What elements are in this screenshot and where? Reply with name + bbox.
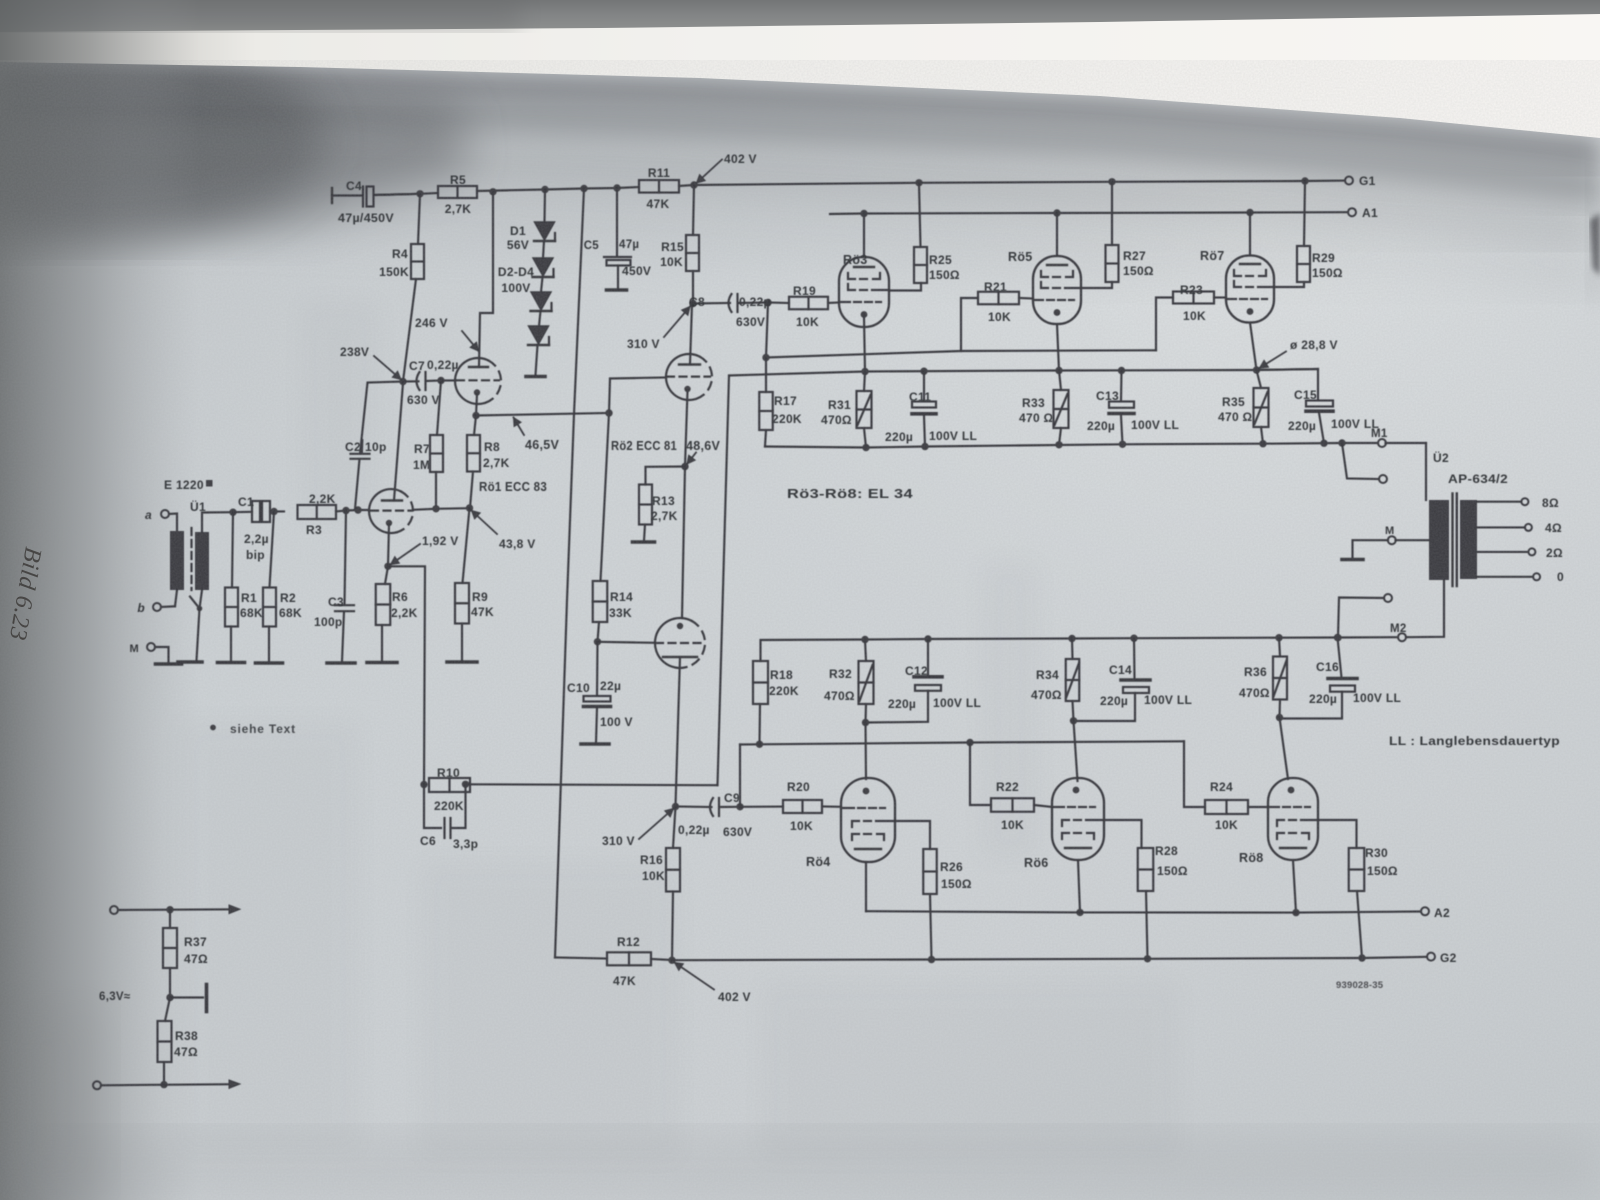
label 1,92 V with arrow <box>391 544 421 565</box>
junction on G1 bus at anode feed <box>489 188 496 195</box>
wire: R10/C6 feedback line to output cathode line <box>466 783 718 786</box>
node 1,92V junction (Roe1a cathode) <box>384 563 391 570</box>
terminal A2 <box>1421 907 1429 915</box>
junction R10 left node <box>420 781 427 788</box>
resistor R15 <box>693 185 694 235</box>
ground bar at heater center tap <box>170 996 203 998</box>
node 310V (top) junction at C8 <box>689 300 696 307</box>
junction at C3 tap <box>342 507 349 514</box>
junction M2 bus at C16 <box>1334 634 1341 641</box>
secondary tap 0 <box>1477 576 1533 578</box>
resistor R37 47R <box>169 910 171 928</box>
resistor R2 68K <box>270 512 275 588</box>
ground under C3 <box>327 661 355 665</box>
faint bleed-through from reverse page <box>180 300 1180 1160</box>
resistor R32 470R <box>865 640 866 662</box>
junction: C7 output node <box>437 377 444 384</box>
resistor R13 2,7K <box>646 467 686 485</box>
node 6,3V center tap <box>166 994 173 1001</box>
diode D1 56V <box>543 190 546 223</box>
wire: G1 supply bus (top rail) <box>374 193 438 195</box>
capacitor C16 220u 100V LL <box>1338 638 1342 678</box>
secondary tap 4 Ohm <box>1477 526 1525 528</box>
wire: A1 anode rail <box>830 212 1348 214</box>
ground under R1 <box>218 661 245 665</box>
resistor R1 68K <box>232 512 233 587</box>
terminal b <box>153 603 161 611</box>
capacitor C2 10p <box>360 382 403 454</box>
capacitor C7 0,22u 630V <box>403 380 419 382</box>
wire: upper cathode line <box>729 369 1318 376</box>
terminal stub above M2 <box>1338 598 1384 638</box>
resistor R35 470R <box>1257 370 1262 388</box>
ground under R2 <box>256 661 283 665</box>
diode D2 <box>543 241 544 258</box>
left gutter vignette <box>0 0 200 1200</box>
wire: lower common grid line <box>739 745 741 807</box>
capacitor C8 0,22u 630V <box>693 302 730 305</box>
junction heater top at R37 <box>166 906 173 913</box>
capacitor C5 47u/450V <box>616 188 618 257</box>
resistor R36 470R <box>1279 638 1280 656</box>
resistor R6 2,2K <box>385 566 388 584</box>
capacitor C9 0,22u 630V <box>676 805 712 808</box>
ground under R6 <box>367 661 397 665</box>
wire: heater top with arrow <box>118 908 236 911</box>
transformer U2 secondary winding <box>1460 500 1477 579</box>
label E 1220 footnote square <box>206 480 213 487</box>
capacitor C15 220u 100V LL <box>1257 369 1319 400</box>
tube Roe3 EL34 <box>863 214 865 258</box>
ground under b/M <box>156 662 182 666</box>
junction: Roe8 cathode node <box>1276 714 1283 721</box>
capacitor C14 220u 100V LL <box>1133 638 1136 679</box>
terminal heater bottom-left <box>93 1081 101 1089</box>
junction M2 bus at R36 <box>1275 634 1282 641</box>
tube Roe6 EL34 <box>1052 778 1104 860</box>
tube Roe1b ECC83 (second triode) <box>455 358 489 404</box>
node 46,5V junction (Roe1b cathode) <box>472 412 479 419</box>
resistor R24 10K (grid stopper Roe8) <box>1184 741 1205 807</box>
label 43,8 V with arrow <box>472 511 498 535</box>
diode D3 <box>541 277 543 292</box>
junction A1 rail at Roe7 anode <box>1246 209 1253 216</box>
wire: Roe2 grid bias column from 46,5V line <box>601 379 611 582</box>
label 402 V top with arrow <box>697 160 723 184</box>
tube Roe2b ECC81 (phase splitter lower) <box>655 618 692 668</box>
tube Roe4 EL34 <box>841 778 895 862</box>
tube Roe7 EL34 <box>1249 213 1251 256</box>
ground under U1 <box>178 660 202 664</box>
capacitor C3 100p <box>345 511 347 605</box>
label 48,6V with arrow <box>687 453 696 465</box>
junction on G1 bus at B+ down-feed <box>580 185 587 192</box>
node 402V (bottom) junction <box>668 957 675 964</box>
junction: C9 output node <box>736 803 743 810</box>
ground under R13 <box>633 540 655 544</box>
label 310 V top with arrow <box>664 307 690 338</box>
transformer U1 left winding <box>170 531 184 590</box>
junction R10 right node <box>462 781 469 788</box>
resistor R18 220K (grid leak lower) <box>758 704 761 744</box>
junction at R2 tap <box>270 508 277 515</box>
wire: upper common grid line <box>766 303 768 358</box>
junction A2 at Roe8 anode <box>1292 909 1299 916</box>
resistor R22 10K (grid stopper Roe6) <box>966 739 973 746</box>
capacitor C11 220u 100V LL <box>920 368 927 375</box>
terminal M2 (in line) <box>1398 633 1406 641</box>
junction: lower grid line at R18 <box>756 741 763 748</box>
tube Roe8 EL34 <box>1268 778 1318 860</box>
gray band above page edge <box>0 0 1600 32</box>
junction M2 bus at R34 <box>1068 635 1075 642</box>
terminal G2 <box>1427 953 1435 961</box>
wire: upper return line to M1 <box>765 443 1378 448</box>
junction: Roe3 cathode node <box>861 368 868 375</box>
junction M2 bus at C12 <box>924 635 931 642</box>
terminal M (input) <box>147 643 155 651</box>
resistor R38 47R <box>165 998 170 1022</box>
transformer U2 core lines <box>1451 494 1453 587</box>
resistor R21 10K (grid stopper Roe5) <box>961 298 978 351</box>
junction: Roe6 cathode node <box>1070 717 1077 724</box>
label 310 V bottom with arrow <box>639 809 674 840</box>
junction M2 bus at C14 <box>1130 635 1137 642</box>
junction: grid line at R17 <box>762 354 769 361</box>
wire: Roe2a cathode to Roe2b <box>682 467 685 619</box>
capacitor C12 220u 100V LL <box>927 639 929 676</box>
junction A2 at Roe6 anode <box>1076 909 1083 916</box>
junction at C2 tap <box>354 506 361 513</box>
junction on G1 bus at R4 tap <box>416 190 423 197</box>
diode D4 <box>539 311 541 326</box>
wire: M2 cathode return bus <box>865 637 1398 639</box>
transformer U2 primary winding <box>1429 500 1449 580</box>
resistor R19 <box>789 297 828 310</box>
resistor R7 1M <box>437 381 441 436</box>
label 46,5V with arrow <box>514 418 525 436</box>
junction on G1 bus at diode chain <box>541 186 548 193</box>
resistor R25 150R (screen Roe3) <box>915 179 922 186</box>
wire: heater bottom with arrow <box>101 1084 236 1085</box>
terminal A1 <box>1348 208 1356 216</box>
resistor R16 10K <box>673 807 676 849</box>
resistor R14 33K <box>593 581 608 622</box>
terminal a <box>161 510 169 518</box>
resistor R5 <box>438 186 477 198</box>
label phi 28,8 V with arrow <box>1260 352 1287 369</box>
tube Roe5 EL34 <box>1056 213 1058 256</box>
tube Roe2a ECC81 (phase splitter upper) <box>666 354 700 400</box>
junction heater bottom at R38 <box>160 1081 167 1088</box>
resistor R29 150R (screen Roe7) <box>1301 177 1308 184</box>
tube Roe1a ECC83 (input triode) <box>369 489 401 533</box>
capacitor C13 220u 100V LL <box>1118 367 1125 374</box>
wire: NFB vertical (cathode line to R10) <box>718 376 730 786</box>
node 310V (bottom) junction <box>672 803 679 810</box>
resistor R10 220K <box>429 778 470 792</box>
capacitor C10 22u 100V <box>596 642 599 696</box>
wire: grid row through Roe1a to 43,8V node <box>413 509 436 510</box>
node 238V junction <box>399 378 406 385</box>
ground under R9 <box>447 660 477 664</box>
junction: C8 output node <box>764 299 771 306</box>
secondary tap 2 Ohm <box>1477 551 1528 553</box>
wire: A2 anode rail <box>866 911 1421 912</box>
resistor R12 47K <box>555 958 607 959</box>
junction at R1 tap <box>229 509 236 516</box>
subtle bottom darkening <box>0 1130 1600 1200</box>
terminal below M1 <box>1338 439 1345 446</box>
resistor R23 10K (grid stopper Roe7) <box>1156 298 1173 351</box>
terminal M1 <box>1378 439 1386 447</box>
wire: G2 supply rail (bottom) <box>672 957 1427 960</box>
label 246V with pointer <box>462 331 479 351</box>
wire: 1,92V node to R10 <box>388 566 425 784</box>
junction: Roe7 cathode node, 28,8V <box>1253 366 1260 373</box>
resistor R27 150R (screen Roe5) <box>1108 178 1115 185</box>
transformer U1 right winding <box>195 532 209 590</box>
junction R7 bottom <box>432 505 439 512</box>
resistor R33 470R <box>1059 371 1061 391</box>
resistor R20 10K (grid stopper Roe4) <box>740 806 783 808</box>
secondary tap 8 Ohm <box>1477 501 1521 503</box>
terminal M center tap with ground <box>1388 536 1396 544</box>
node 43,8V junction <box>466 504 473 511</box>
resistor R17 220K (grid leak) <box>765 358 767 392</box>
junction R14/C10/Roe2b grid <box>594 638 601 645</box>
junction: Roe4 cathode node <box>862 719 869 726</box>
ground bar terminating diode chain <box>536 345 538 375</box>
right edge notch <box>1590 213 1600 276</box>
footnote bullet for siehe Text <box>210 725 216 731</box>
overhanging page edge: bright white band <box>0 12 1600 138</box>
deeper shadow top-left <box>0 70 470 248</box>
wire: input signal line to C1 <box>202 512 233 532</box>
capacitor C1 2,2u bip <box>252 501 260 522</box>
resistor R30 150R (screen Roe8) <box>1318 820 1357 848</box>
junction: Roe5 cathode node <box>1055 367 1062 374</box>
wire: B+ 402V vertical feed to R12 <box>555 189 584 958</box>
resistor R3 2,2K <box>298 505 337 519</box>
resistor R8 2,7K <box>474 416 476 436</box>
terminal heater top-left <box>110 906 118 914</box>
resistor R4 <box>418 194 420 244</box>
wire: 46,5V line to Roe2 grid divider <box>476 413 609 416</box>
resistor R31 470R <box>864 372 865 392</box>
junction on G1 bus at C5 <box>613 184 620 191</box>
wire: M1 to transformer primary top <box>1425 443 1427 500</box>
resistor R9 47K <box>463 508 470 583</box>
label 402 V bottom with arrow <box>675 963 715 990</box>
junction A1 rail at Roe3 anode <box>860 210 867 217</box>
label 238V with arrow <box>374 356 401 380</box>
transformer U1 core screen (dashed) <box>190 528 192 590</box>
node 402V (top) junction <box>690 181 697 188</box>
terminal G1 <box>1345 177 1353 185</box>
capacitor C6 3,3p <box>424 785 441 829</box>
resistor R28 150R (screen Roe6) <box>1104 820 1142 848</box>
resistor R26 150R (screen Roe4) <box>895 821 930 849</box>
capacitor C4 <box>331 188 333 203</box>
ground under C10 <box>581 742 609 746</box>
junction A1 rail at Roe5 anode <box>1053 209 1060 216</box>
node 48,6V junction <box>681 463 688 470</box>
shadow cast by the page edge onto the schematic page <box>0 62 1600 166</box>
resistor R11 <box>639 180 679 193</box>
ground under C5 <box>607 288 627 292</box>
resistor R34 470R <box>1071 639 1074 660</box>
junction M2 bus at R32 <box>861 636 868 643</box>
